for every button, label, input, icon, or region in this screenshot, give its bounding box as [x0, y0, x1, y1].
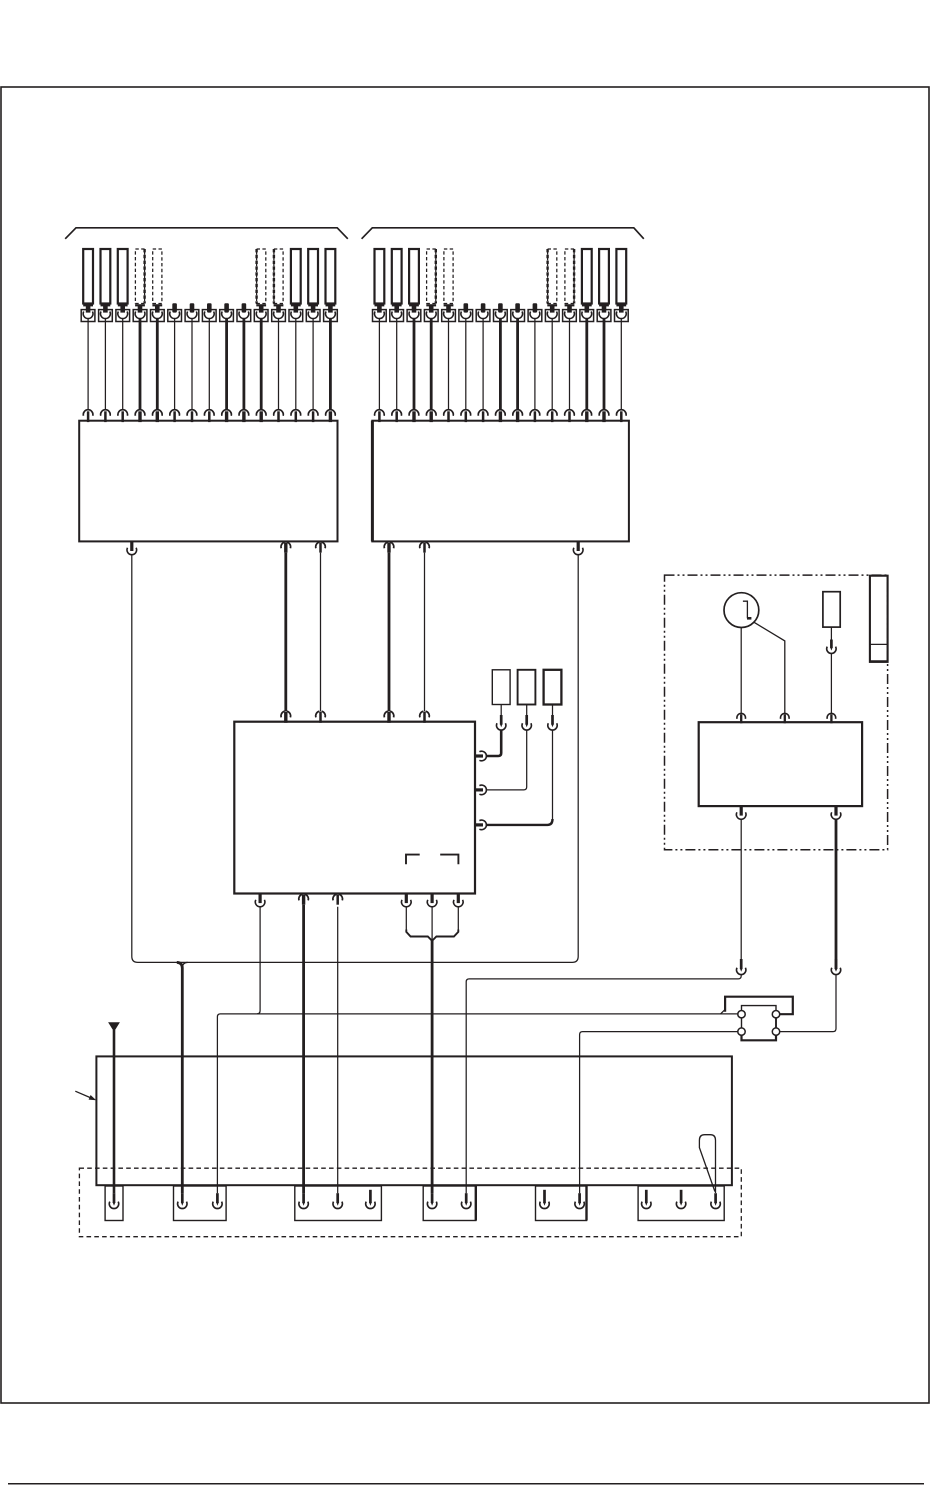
pin entry into amplifier block: [582, 410, 592, 422]
pin SP2-9: [515, 303, 520, 312]
antenna symbol: [108, 1022, 120, 1032]
navigation option enclosure (dash-dot): [665, 575, 888, 850]
amplifier block U1 (front): [79, 421, 337, 542]
wire: [448, 319, 450, 410]
antenna sub-feeder loop: [699, 1135, 715, 1193]
optional speaker SP2-12: [565, 249, 575, 313]
speaker SP2-1: [375, 249, 385, 313]
pin SP2-8: [498, 303, 503, 312]
speaker SP2-3: [409, 249, 419, 313]
connector J2-10: [528, 310, 542, 322]
connector J2-11: [545, 310, 559, 322]
wire microphone to nav unit: [740, 628, 742, 714]
connector J1-2: [99, 310, 113, 322]
pin entry into amplifier block: [409, 410, 419, 422]
pin entry into amplifier block: [599, 410, 609, 422]
optional speaker SP2-5: [444, 249, 454, 313]
connector exit pin nav unit left: [736, 806, 746, 819]
connector J2-3: [407, 310, 421, 322]
wire nav unit exit right (thick): [835, 819, 838, 959]
pin SP1-7: [190, 303, 195, 312]
connector pin at vehicle connector CF: [642, 1190, 651, 1209]
connector pin at vehicle connector CB: [213, 1193, 222, 1208]
vehicle connector CA: [105, 1186, 123, 1221]
wire: [378, 319, 380, 410]
pin entry into amplifier block: [530, 410, 540, 422]
joint connector terminal BR: [772, 1028, 779, 1035]
connector J1-14: [306, 310, 320, 322]
wire aux A1 to head unit (thick): [486, 730, 501, 756]
pin entry into amplifier block: [135, 410, 145, 422]
pin entry into nav unit top: [737, 713, 746, 723]
pin entry into head unit top (thick): [281, 711, 291, 723]
wire bus B to harness: [580, 1032, 738, 1194]
wire microphone diagonal: [754, 622, 785, 713]
pin entry into amplifier block: [375, 410, 385, 422]
wire U1 to head unit (thick): [284, 553, 287, 712]
optional speaker SP1-11: [256, 249, 266, 313]
connector exit pin U1 (left): [127, 541, 137, 554]
connector pin at vehicle connector CE: [540, 1190, 549, 1209]
pin entry into amplifier block: [547, 410, 557, 422]
pin entry into amplifier block: [101, 410, 111, 422]
rear speaker group brace: [362, 228, 644, 239]
pin entry into amplifier block: [426, 410, 436, 422]
pin SP2-10: [533, 303, 538, 312]
wire aux A3 to head unit vertical: [552, 730, 554, 820]
connector J2-6: [459, 310, 473, 322]
wire: [551, 319, 553, 410]
speaker SP1-13: [291, 249, 301, 313]
wire: [122, 319, 124, 410]
wire merge bracket: [406, 930, 458, 941]
wire U2 to head unit (thick): [388, 553, 391, 712]
head unit / radio receiver U3: [234, 722, 475, 894]
pin entry head unit bottom: [333, 894, 343, 904]
speaker SP1-15: [326, 249, 336, 313]
wire: [396, 319, 398, 410]
wire nav unit exit left: [740, 819, 742, 959]
pin entry into amplifier block: [308, 410, 318, 422]
connector J2-2: [390, 310, 404, 322]
speaker SP2-14: [599, 249, 609, 313]
optional speaker SP1-5: [152, 249, 162, 313]
aux unit A2: [518, 670, 536, 705]
pin entry into U1 bottom: [316, 542, 326, 552]
vehicle connector CE: [536, 1186, 587, 1221]
speaker SP2-15: [616, 249, 626, 313]
pin entry into amplifier block: [274, 410, 284, 422]
joint connector terminal BL: [738, 1028, 745, 1035]
optional speaker SP1-4: [135, 249, 145, 313]
connector pin at vehicle connector CD: [427, 1193, 436, 1208]
pin SP2-7: [481, 303, 486, 312]
pin entry into amplifier block: [204, 410, 214, 422]
connector pin nav wire right (thick): [831, 959, 840, 975]
vehicle connector CB: [174, 1186, 227, 1221]
pin entry into amplifier block: [83, 410, 93, 422]
pin entry head unit bottom (thick): [299, 894, 309, 904]
wire: [329, 319, 332, 410]
vehicle connector CF: [638, 1186, 724, 1221]
wire nav left to harness: [466, 975, 741, 1194]
vehicle connector CC: [295, 1186, 382, 1221]
harness leader arrow: [75, 1091, 96, 1100]
wire: [225, 319, 228, 410]
pin entry into amplifier block: [617, 410, 627, 422]
connector J1-6: [168, 310, 182, 322]
pin entry into head unit top (thick): [384, 711, 394, 723]
pin SP1-6: [172, 303, 177, 312]
wire merged to harness (thick): [431, 940, 434, 1194]
pin SP1-8: [207, 303, 212, 312]
pin entry into amplifier block: [326, 410, 336, 422]
joint connector terminal TL: [738, 1011, 745, 1018]
joint connector bottom busbar (thick): [742, 1035, 777, 1040]
speaker SP1-3: [118, 249, 128, 313]
navigation unit U4: [699, 722, 862, 806]
wire: [516, 319, 519, 410]
pin entry into U2 bottom (thick): [384, 542, 394, 552]
pin SP1-10: [242, 303, 247, 312]
pin entry into head unit top: [316, 711, 326, 723]
speaker SP2-2: [392, 249, 402, 313]
wire head unit pin to bus A: [257, 907, 260, 1014]
pin entry into amplifier block: [291, 410, 301, 422]
pin entry into amplifier block: [256, 410, 266, 422]
optional speaker SP2-4: [426, 249, 436, 313]
connector J1-13: [289, 310, 303, 322]
speaker SP1-1: [83, 249, 93, 313]
footer rule: [8, 1483, 924, 1485]
connector exit pin head unit right: [475, 785, 486, 795]
connector J1-10: [237, 310, 251, 322]
pin entry into amplifier block: [444, 410, 454, 422]
wire aux A3 to head unit horizontal (thick): [486, 819, 552, 825]
pin entry into amplifier block: [153, 410, 163, 422]
wire: [620, 319, 622, 410]
connector J2-1: [373, 310, 387, 322]
connector exit pin head unit: [427, 894, 437, 907]
right edge unit divider: [870, 643, 888, 645]
wire from aux unit A1: [500, 705, 502, 716]
connector J2-5: [442, 310, 456, 322]
pin entry into head unit top: [420, 711, 430, 723]
wire: [603, 319, 606, 410]
pin entry into amplifier block: [461, 410, 471, 422]
connector exit pin head unit right: [475, 751, 486, 761]
connector J1-1: [81, 310, 95, 322]
connector exit pin head unit: [453, 894, 463, 907]
wire: [569, 319, 571, 410]
wire: [191, 319, 193, 410]
pin entry into U1 bottom (thick): [281, 542, 291, 552]
joint connector inner bracket: [742, 1006, 777, 1011]
connector pin nav sensor: [827, 640, 836, 654]
connector J1-11: [254, 310, 268, 322]
wire: [534, 319, 536, 410]
aux unit A3: [544, 670, 562, 705]
amplifier block U2 (rear): [372, 421, 629, 542]
pin entry into amplifier block: [187, 410, 197, 422]
joint connector outer busbar (thick): [725, 997, 793, 1015]
harness cover (dashed): [79, 1168, 741, 1237]
pin SP2-6: [464, 303, 469, 312]
wire branch to main harness (thick): [177, 962, 188, 1193]
connector pin at vehicle connector CD: [462, 1193, 471, 1208]
connector pin at vehicle connector CF: [711, 1193, 720, 1208]
connector J1-15: [324, 310, 338, 322]
wire: [87, 319, 89, 410]
wire: [242, 319, 245, 410]
connector pin aux unit A1: [497, 715, 506, 730]
optional speaker SP1-12: [274, 249, 284, 313]
connector exit pin head unit (far left): [255, 894, 265, 907]
wire: [295, 319, 297, 410]
display label corner marks: [406, 855, 458, 865]
connector pin aux unit A3: [548, 715, 557, 730]
joint connector link left: [741, 1018, 743, 1028]
pin SP1-9: [224, 303, 229, 312]
wire: [312, 319, 314, 410]
speaker SP2-13: [582, 249, 592, 313]
connector J1-4: [133, 310, 147, 322]
antenna feeder wire (thick): [113, 1030, 116, 1193]
microphone glyph: [743, 601, 752, 618]
wire nav sensor to nav unit: [830, 653, 832, 713]
wire from aux unit A2: [526, 705, 528, 716]
aux unit A1: [492, 670, 510, 705]
wire merge right: [457, 907, 459, 932]
pin entry into amplifier block: [170, 410, 180, 422]
wire: [430, 319, 433, 410]
nav sensor rect: [823, 592, 840, 627]
wire U2 to head unit: [424, 553, 426, 712]
pin entry into amplifier block: [118, 410, 128, 422]
connector J1-3: [116, 310, 130, 322]
joint connector chamfer: [720, 1009, 725, 1014]
connector pin at vehicle connector CC: [299, 1193, 308, 1208]
connector pin at vehicle connector CC: [366, 1190, 375, 1209]
connector J2-15: [615, 310, 629, 322]
connector J1-7: [185, 310, 199, 322]
microphone M1 circle: [724, 593, 759, 628]
wire aux A2 to head unit: [486, 730, 526, 790]
connector pin at vehicle connector CF: [676, 1190, 685, 1209]
pin entry into amplifier block: [565, 410, 575, 422]
connector exit pin U2 (right): [573, 541, 583, 554]
pin entry into amplifier block: [239, 410, 249, 422]
wire head unit to harness (thick): [302, 905, 305, 1193]
connector pin at vehicle connector CC: [333, 1193, 342, 1208]
connector J1-5: [151, 310, 165, 322]
connector J2-12: [563, 310, 577, 322]
wire nav right to joint connector: [780, 975, 836, 1032]
wire bus A horizontal: [217, 1014, 737, 1193]
pin entry into amplifier block: [513, 410, 523, 422]
pin entry into amplifier block: [478, 410, 488, 422]
wire merge left: [405, 907, 407, 932]
optional speaker SP2-11: [547, 249, 557, 313]
wire: [499, 319, 502, 410]
connector J2-8: [494, 310, 508, 322]
pin entry into nav unit top: [827, 713, 836, 723]
wire from aux unit A3: [552, 705, 554, 716]
connector exit pin head unit: [402, 894, 412, 907]
wire U1 to U2 link: [132, 555, 578, 963]
connector J2-9: [511, 310, 525, 322]
connector exit pin head unit right: [475, 820, 486, 830]
connector J2-14: [597, 310, 611, 322]
speaker SP1-14: [308, 249, 318, 313]
pin entry into amplifier block: [496, 410, 506, 422]
connector J1-9: [220, 310, 234, 322]
wire: [208, 319, 210, 410]
wire: [465, 319, 467, 410]
wire: [413, 319, 416, 410]
joint connector terminal TR: [772, 1011, 779, 1018]
connector pin aux unit A2: [522, 715, 531, 730]
joint connector link right: [775, 1018, 777, 1028]
wire: [585, 319, 588, 410]
connector J1-12: [272, 310, 286, 322]
speaker SP1-2: [101, 249, 111, 313]
wire U1 to head unit: [320, 553, 322, 712]
connector pin at vehicle connector CB: [178, 1193, 187, 1208]
vehicle connector CD: [423, 1186, 476, 1221]
connector J1-8: [202, 310, 216, 322]
pin entry into amplifier block: [392, 410, 402, 422]
front speaker group brace: [65, 228, 348, 239]
wire head unit to harness: [337, 907, 339, 1193]
right edge unit rect: [869, 576, 889, 662]
connector pin nav wire left: [737, 959, 746, 975]
wire nav sensor: [830, 627, 832, 640]
connector exit pin nav unit right: [831, 806, 841, 819]
wire harness trough W1: [96, 1056, 732, 1185]
wire: [156, 319, 159, 410]
pin entry into amplifier block: [222, 410, 232, 422]
connector J2-4: [424, 310, 438, 322]
wire: [139, 319, 142, 410]
pin entry into nav unit top: [781, 713, 790, 723]
wire: [104, 319, 106, 410]
pin entry into U2 bottom: [420, 542, 430, 552]
connector pin at vehicle connector CE: [575, 1193, 584, 1208]
wire: [482, 319, 484, 410]
connector J2-13: [580, 310, 594, 322]
connector pin at vehicle connector CA: [109, 1193, 118, 1208]
connector J2-7: [476, 310, 490, 322]
wire: [278, 319, 280, 410]
wire: [174, 319, 176, 410]
wire: [260, 319, 263, 410]
wire merge mid: [431, 907, 433, 941]
